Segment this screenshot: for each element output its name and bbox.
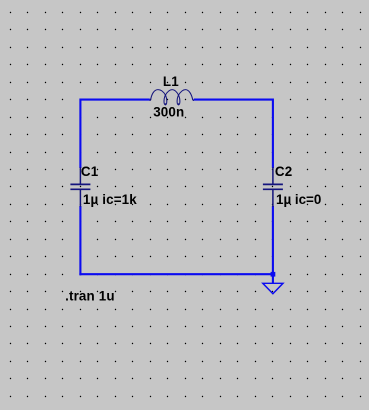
wire bottom segment: [79, 273, 273, 275]
inductor L1: [150, 90, 194, 105]
capacitor C2: [263, 167, 283, 207]
wire right lower segment: [272, 206, 274, 283]
wire left lower segment: [79, 206, 81, 275]
ground: [263, 283, 283, 293]
svg-text:300n: 300n: [153, 105, 184, 120]
svg-text:C2: C2: [275, 164, 292, 179]
wire top-left segment: [80, 100, 149, 168]
svg-text:L1: L1: [163, 74, 179, 89]
inductor L1 loop tips: [164, 103, 166, 105]
svg-text:C1: C1: [81, 164, 99, 179]
svg-text:.tran 1u: .tran 1u: [65, 288, 115, 303]
svg-text:1µ ic=1k: 1µ ic=1k: [83, 192, 137, 207]
junction node: [271, 272, 276, 277]
wire top-right segment: [194, 100, 273, 168]
svg-text:1µ ic=0: 1µ ic=0: [276, 192, 321, 207]
capacitor C1: [70, 167, 90, 207]
